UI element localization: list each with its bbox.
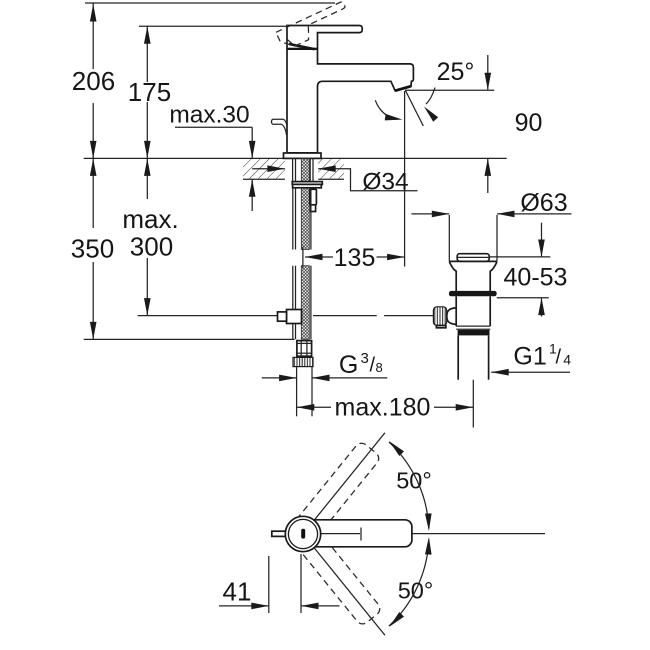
svg-text:8: 8 — [376, 360, 383, 375]
svg-text:175: 175 — [128, 77, 171, 107]
svg-text:max.30: max.30 — [169, 102, 249, 129]
svg-text:300: 300 — [130, 231, 173, 261]
svg-text:4: 4 — [563, 352, 571, 368]
svg-text:135: 135 — [334, 244, 376, 272]
svg-text:max.180: max.180 — [335, 394, 431, 422]
svg-text:/: / — [556, 347, 562, 369]
svg-text:Ø63: Ø63 — [520, 189, 567, 217]
svg-text:50°: 50° — [396, 468, 432, 494]
svg-text:90: 90 — [515, 109, 543, 137]
svg-text:40-53: 40-53 — [504, 264, 568, 292]
svg-text:206: 206 — [72, 66, 115, 96]
svg-text:G: G — [339, 351, 358, 379]
svg-text:G1: G1 — [513, 343, 546, 371]
svg-text:3: 3 — [361, 350, 369, 367]
svg-text:41: 41 — [223, 577, 252, 607]
svg-text:max.: max. — [122, 204, 178, 234]
svg-text:350: 350 — [71, 234, 114, 264]
svg-text:25°: 25° — [437, 58, 475, 86]
svg-text:Ø34: Ø34 — [362, 169, 408, 196]
